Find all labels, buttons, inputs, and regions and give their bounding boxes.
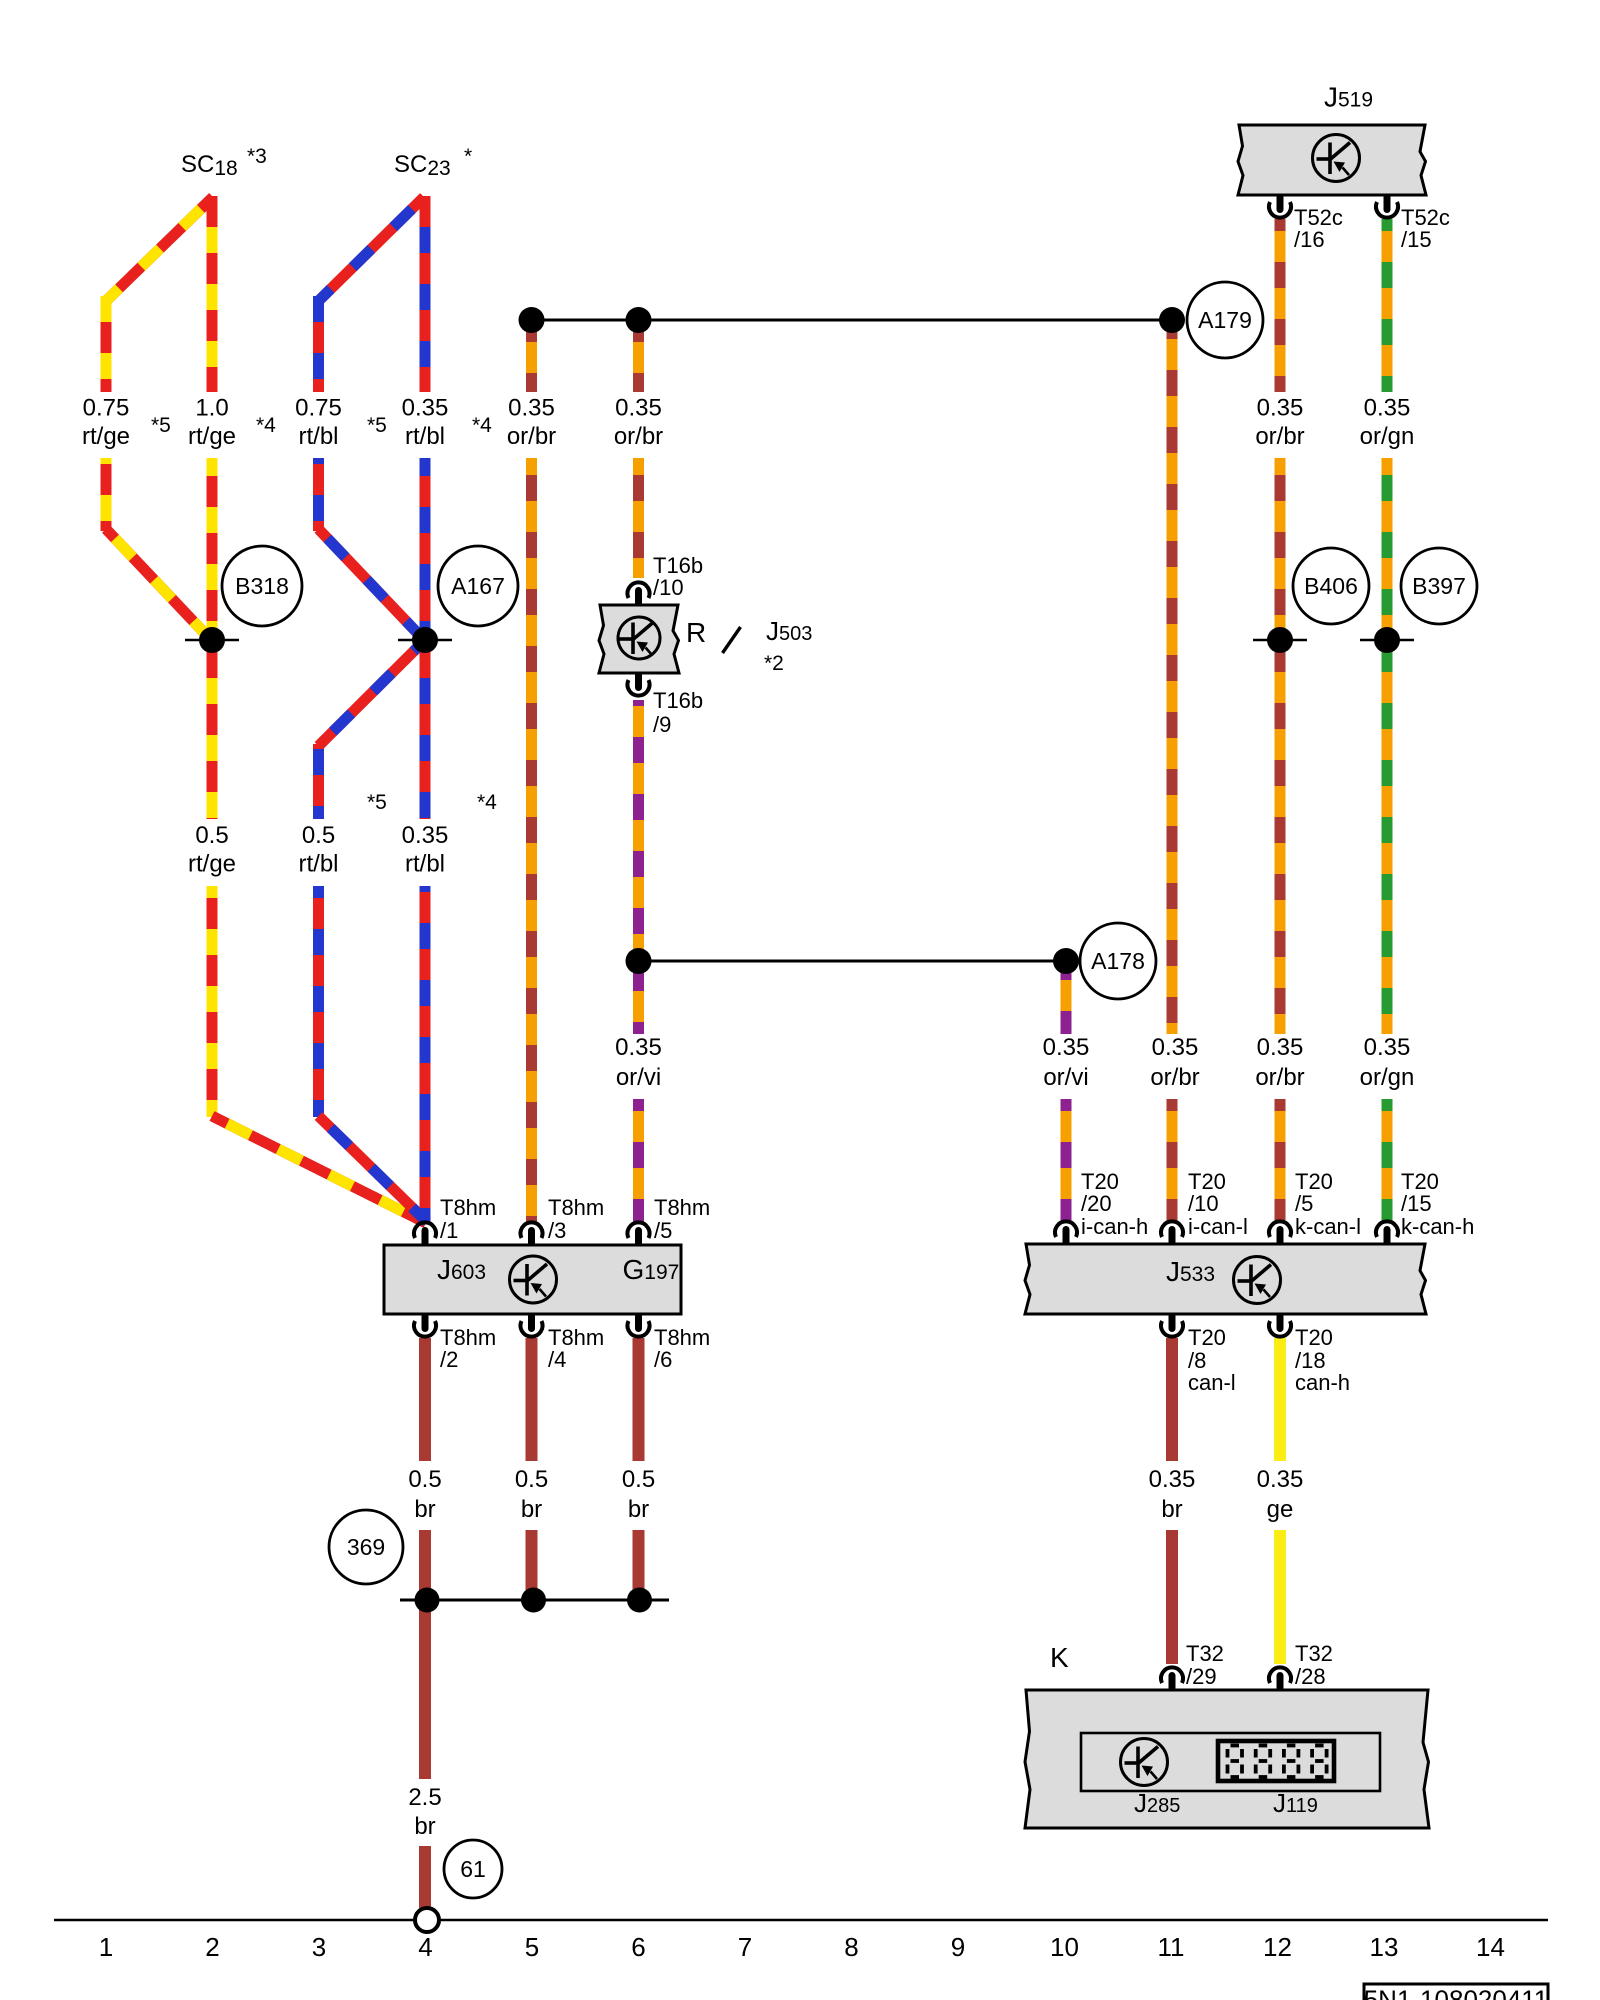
svg-text:0.35: 0.35 bbox=[1364, 1034, 1411, 1061]
svg-text:*5: *5 bbox=[367, 791, 387, 814]
svg-text:*5: *5 bbox=[367, 414, 387, 437]
svg-text:T32: T32 bbox=[1186, 1641, 1224, 1666]
svg-text:br: br bbox=[414, 1496, 435, 1523]
svg-text:can-h: can-h bbox=[1295, 1370, 1350, 1395]
svg-text:or/gn: or/gn bbox=[1360, 423, 1415, 450]
svg-text:br: br bbox=[1161, 1496, 1182, 1523]
svg-text:br: br bbox=[414, 1813, 435, 1840]
svg-text:0.35: 0.35 bbox=[402, 822, 449, 849]
svg-text:*4: *4 bbox=[472, 414, 492, 437]
svg-text:rt/bl: rt/bl bbox=[298, 423, 338, 450]
svg-text:0.35: 0.35 bbox=[1043, 1034, 1090, 1061]
svg-text:or/vi: or/vi bbox=[616, 1064, 661, 1091]
svg-text:0.5: 0.5 bbox=[408, 1466, 441, 1493]
svg-text:A167: A167 bbox=[451, 573, 505, 599]
svg-text:rt/ge: rt/ge bbox=[188, 851, 236, 878]
svg-text:i-can-l: i-can-l bbox=[1188, 1214, 1248, 1239]
svg-text:0.75: 0.75 bbox=[83, 395, 130, 422]
svg-text:0.35: 0.35 bbox=[615, 395, 662, 422]
svg-text:or/br: or/br bbox=[1150, 1064, 1199, 1091]
svg-text:B397: B397 bbox=[1412, 573, 1466, 599]
svg-text:/1: /1 bbox=[440, 1218, 458, 1243]
svg-text:br: br bbox=[628, 1496, 649, 1523]
svg-text:rt/bl: rt/bl bbox=[298, 851, 338, 878]
svg-text:k-can-l: k-can-l bbox=[1295, 1214, 1361, 1239]
svg-text:rt/ge: rt/ge bbox=[82, 423, 130, 450]
svg-text:1: 1 bbox=[99, 1932, 113, 1962]
svg-text:*3: *3 bbox=[247, 145, 267, 168]
svg-text:T8hm: T8hm bbox=[548, 1195, 604, 1220]
svg-text:0.35: 0.35 bbox=[1257, 1034, 1304, 1061]
svg-text:61: 61 bbox=[460, 1856, 486, 1882]
svg-text:/3: /3 bbox=[548, 1218, 566, 1243]
svg-text:14: 14 bbox=[1476, 1932, 1505, 1962]
svg-text:0.35: 0.35 bbox=[402, 395, 449, 422]
svg-text:B318: B318 bbox=[235, 573, 289, 599]
svg-text:k-can-h: k-can-h bbox=[1401, 1214, 1474, 1239]
svg-text:6: 6 bbox=[631, 1932, 645, 1962]
svg-text:T16b: T16b bbox=[653, 688, 703, 713]
svg-text:rt/bl: rt/bl bbox=[405, 423, 445, 450]
svg-text:or/br: or/br bbox=[1255, 1064, 1304, 1091]
svg-text:/28: /28 bbox=[1295, 1664, 1326, 1689]
svg-text:0.35: 0.35 bbox=[615, 1034, 662, 1061]
svg-text:A178: A178 bbox=[1091, 948, 1145, 974]
svg-text:5N1-108020411: 5N1-108020411 bbox=[1364, 1985, 1549, 2000]
svg-text:T20: T20 bbox=[1188, 1325, 1226, 1350]
svg-text:*2: *2 bbox=[764, 652, 784, 675]
svg-text:/20: /20 bbox=[1081, 1191, 1112, 1216]
svg-text:10: 10 bbox=[1050, 1932, 1079, 1962]
svg-text:11: 11 bbox=[1158, 1932, 1185, 1962]
svg-text:0.5: 0.5 bbox=[622, 1466, 655, 1493]
svg-text:0.5: 0.5 bbox=[195, 822, 228, 849]
svg-text:1.0: 1.0 bbox=[195, 395, 228, 422]
svg-text:2.5: 2.5 bbox=[408, 1784, 441, 1811]
svg-text:0.35: 0.35 bbox=[1149, 1466, 1196, 1493]
svg-text:/2: /2 bbox=[440, 1347, 458, 1372]
svg-text:4: 4 bbox=[418, 1932, 432, 1962]
svg-text:0.75: 0.75 bbox=[295, 395, 342, 422]
svg-text:or/br: or/br bbox=[1255, 423, 1304, 450]
svg-text:or/br: or/br bbox=[507, 423, 556, 450]
svg-text:or/gn: or/gn bbox=[1360, 1064, 1415, 1091]
svg-text:T8hm: T8hm bbox=[440, 1195, 496, 1220]
svg-text:/4: /4 bbox=[548, 1347, 566, 1372]
svg-text:0.35: 0.35 bbox=[508, 395, 555, 422]
svg-text:0.35: 0.35 bbox=[1257, 395, 1304, 422]
svg-text:/10: /10 bbox=[653, 575, 684, 600]
svg-text:/9: /9 bbox=[653, 712, 671, 737]
svg-text:0.5: 0.5 bbox=[302, 822, 335, 849]
svg-text:B406: B406 bbox=[1304, 573, 1358, 599]
svg-text:R: R bbox=[686, 617, 706, 648]
svg-text:rt/ge: rt/ge bbox=[188, 423, 236, 450]
svg-text:or/vi: or/vi bbox=[1043, 1064, 1088, 1091]
svg-text:12: 12 bbox=[1263, 1932, 1292, 1962]
svg-text:13: 13 bbox=[1370, 1932, 1399, 1962]
svg-text:or/br: or/br bbox=[614, 423, 663, 450]
svg-text:5: 5 bbox=[525, 1932, 539, 1962]
svg-text:/15: /15 bbox=[1401, 227, 1432, 252]
svg-text:*4: *4 bbox=[256, 414, 276, 437]
svg-text:can-l: can-l bbox=[1188, 1370, 1236, 1395]
svg-text:A179: A179 bbox=[1198, 307, 1252, 333]
svg-text:0.5: 0.5 bbox=[515, 1466, 548, 1493]
svg-text:i-can-h: i-can-h bbox=[1081, 1214, 1148, 1239]
svg-text:rt/bl: rt/bl bbox=[405, 851, 445, 878]
svg-text:3: 3 bbox=[312, 1932, 326, 1962]
svg-text:K: K bbox=[1050, 1642, 1069, 1673]
svg-text:/16: /16 bbox=[1294, 227, 1325, 252]
svg-text:T32: T32 bbox=[1295, 1641, 1333, 1666]
svg-text:0.35: 0.35 bbox=[1152, 1034, 1199, 1061]
svg-text:/5: /5 bbox=[1295, 1191, 1313, 1216]
svg-text:9: 9 bbox=[951, 1932, 965, 1962]
svg-text:*5: *5 bbox=[151, 414, 171, 437]
svg-text:*: * bbox=[464, 145, 472, 168]
svg-text:ge: ge bbox=[1267, 1496, 1294, 1523]
svg-text:/5: /5 bbox=[654, 1218, 672, 1243]
svg-text:/10: /10 bbox=[1188, 1191, 1219, 1216]
svg-text:7: 7 bbox=[738, 1932, 752, 1962]
svg-text:/29: /29 bbox=[1186, 1664, 1217, 1689]
svg-text:2: 2 bbox=[205, 1932, 219, 1962]
svg-text:8: 8 bbox=[844, 1932, 858, 1962]
svg-text:369: 369 bbox=[347, 1534, 385, 1560]
svg-text:0.35: 0.35 bbox=[1364, 395, 1411, 422]
svg-text:T20: T20 bbox=[1295, 1325, 1333, 1350]
svg-text:/15: /15 bbox=[1401, 1191, 1432, 1216]
svg-text:br: br bbox=[521, 1496, 542, 1523]
svg-text:T8hm: T8hm bbox=[654, 1195, 710, 1220]
svg-text:*4: *4 bbox=[477, 791, 497, 814]
svg-text:/6: /6 bbox=[654, 1347, 672, 1372]
svg-text:0.35: 0.35 bbox=[1257, 1466, 1304, 1493]
